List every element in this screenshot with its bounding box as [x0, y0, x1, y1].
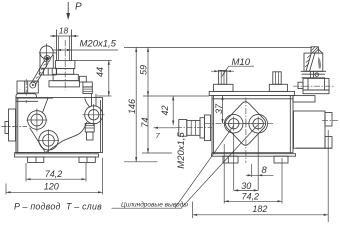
svg-text:146: 146 — [127, 99, 137, 114]
axis leader arrow with 7 — [154, 127, 177, 140]
dimension 74,2 right view — [224, 144, 282, 204]
cylinder port hole right — [249, 114, 268, 133]
M20 gland stack — [49, 30, 79, 91]
svg-text:120: 120 — [44, 181, 59, 191]
dimension 30 — [234, 181, 259, 192]
svg-text:Цилиндровые выводы: Цилиндровые выводы — [121, 201, 188, 209]
stud right — [269, 72, 287, 92]
flange center lines — [205, 98, 273, 191]
top datum line — [124, 46, 312, 48]
arrow P — [66, 2, 82, 21]
dimension 146 — [124, 47, 158, 161]
dimension 18 — [50, 26, 79, 38]
svg-text:74,2: 74,2 — [45, 169, 63, 179]
limit switch lever unit top right — [293, 47, 335, 94]
dimension 44 — [75, 60, 112, 96]
stud left with nut base — [211, 70, 234, 91]
svg-text:37: 37 — [214, 103, 224, 114]
svg-text:8: 8 — [262, 165, 268, 176]
left view body outline — [16, 98, 103, 153]
svg-text:74,2: 74,2 — [242, 192, 260, 202]
svg-text:74: 74 — [140, 117, 150, 127]
dimension 120 — [6, 158, 103, 195]
cylinder port hole left — [224, 114, 243, 133]
diamond flange plate — [225, 102, 265, 146]
svg-text:182: 182 — [252, 204, 267, 214]
svg-text:M20x1,5: M20x1,5 — [80, 39, 117, 50]
svg-text:42: 42 — [160, 105, 170, 115]
left view base plate — [14, 153, 99, 163]
svg-text:P – подвод Т – слив: P – подвод Т – слив — [14, 202, 102, 212]
label M10 — [222, 57, 254, 77]
side port circle C — [83, 104, 105, 126]
label M20x1,5 top — [52, 39, 118, 52]
right view base plate and feet — [212, 154, 296, 163]
svg-text:M20x1,5: M20x1,5 — [176, 132, 187, 169]
svg-text:30: 30 — [241, 181, 251, 191]
bolt boss circle B — [38, 130, 59, 153]
right side box — [294, 111, 339, 148]
dimension 182 — [193, 130, 329, 222]
P port fitting left side — [176, 115, 212, 141]
svg-text:44: 44 — [95, 67, 105, 77]
svg-text:P: P — [75, 2, 82, 13]
svg-text:59: 59 — [138, 65, 148, 75]
roller lever assembly top left — [30, 44, 57, 89]
dimension 37 — [214, 96, 224, 124]
pocket contour lines — [30, 98, 91, 152]
left side protrusion port boss — [2, 109, 28, 141]
dimension 42 — [160, 96, 175, 125]
lever bracket block — [16, 79, 53, 103]
svg-text:18: 18 — [59, 26, 69, 36]
side fitting stack above circle C — [79, 76, 96, 140]
bolt boss circle A — [27, 109, 48, 132]
flange center cross — [243, 121, 249, 127]
caption cylinder ports with leaders — [112, 125, 258, 209]
dimension 59 and 74 shared line — [138, 47, 209, 153]
right view body — [212, 96, 293, 153]
dimension 74,2 left view — [26, 163, 86, 182]
step above right box — [293, 96, 315, 102]
dimension 8 — [246, 164, 274, 177]
right view top plate — [209, 91, 294, 98]
